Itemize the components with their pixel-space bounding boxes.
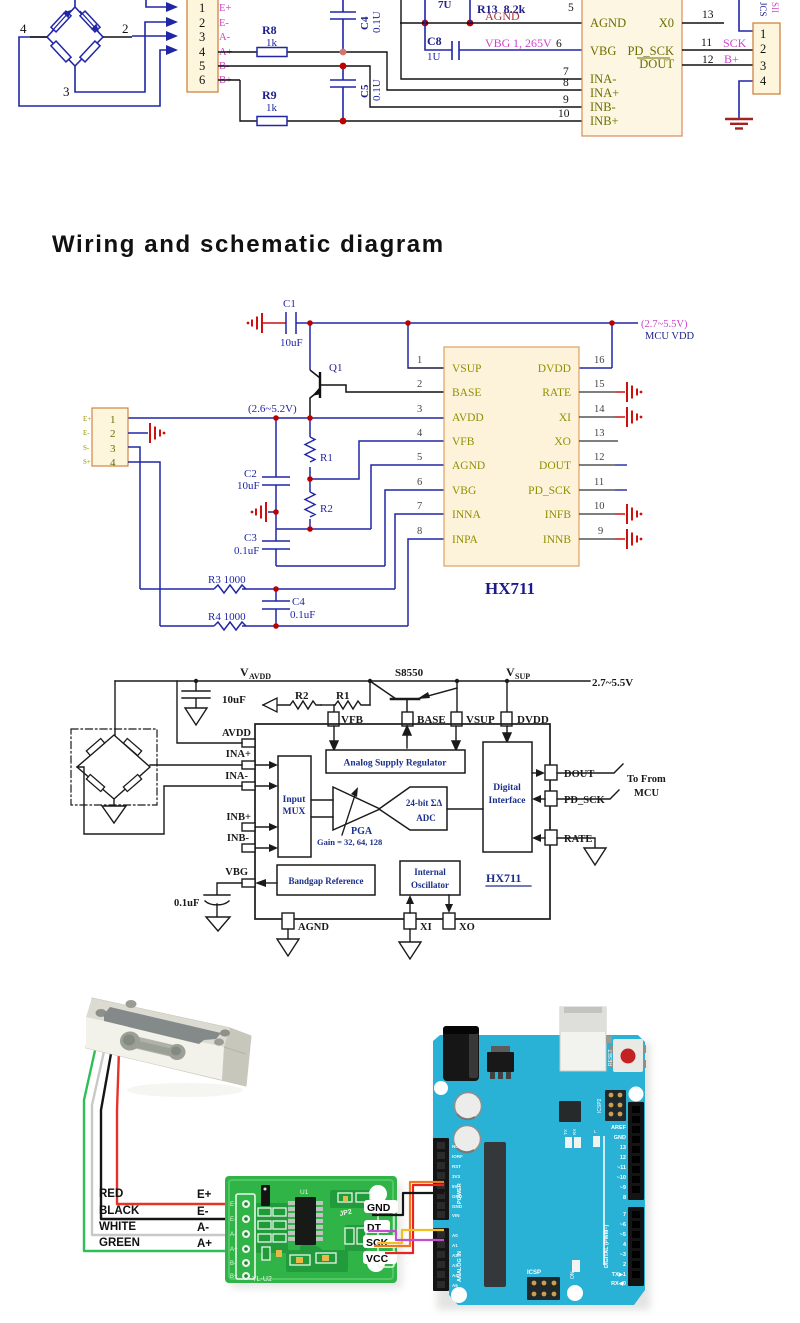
svg-text:Wiring and schematic diagram: Wiring and schematic diagram	[52, 231, 445, 258]
svg-text:Oscillator: Oscillator	[411, 880, 449, 890]
svg-text:1, 265V: 1, 265V	[513, 36, 552, 50]
svg-text:8: 8	[417, 526, 422, 537]
svg-text:INB+: INB+	[226, 812, 251, 823]
svg-text:0.1U: 0.1U	[371, 79, 383, 101]
svg-text:TX: TX	[563, 1129, 568, 1135]
svg-text:E+: E+	[197, 1189, 212, 1201]
svg-text:R8: R8	[262, 23, 277, 37]
svg-text:9: 9	[563, 94, 569, 106]
svg-text:11: 11	[701, 37, 712, 49]
svg-text:R4 1000: R4 1000	[208, 611, 246, 623]
svg-text:2: 2	[760, 42, 766, 56]
svg-text:Bandgap Reference: Bandgap Reference	[288, 876, 363, 886]
svg-text:RX: RX	[572, 1129, 577, 1135]
svg-text:INA+: INA+	[226, 749, 251, 760]
svg-text:SUP: SUP	[515, 672, 530, 681]
svg-text:E+: E+	[83, 415, 91, 423]
svg-text:R9: R9	[262, 88, 277, 102]
svg-text:4: 4	[417, 428, 423, 439]
svg-text:~3: ~3	[620, 1252, 626, 1258]
svg-text:AVDD: AVDD	[249, 672, 271, 681]
svg-text:B+: B+	[724, 52, 739, 66]
svg-text:7: 7	[623, 1212, 626, 1218]
svg-text:VSUP: VSUP	[452, 363, 481, 375]
svg-text:~5: ~5	[620, 1232, 626, 1238]
svg-text:E+: E+	[230, 1202, 238, 1208]
svg-text:R1: R1	[320, 452, 333, 464]
svg-text:S-: S-	[83, 444, 90, 452]
svg-text:RX◀0: RX◀0	[611, 1280, 626, 1287]
svg-text:PD_SCK: PD_SCK	[564, 795, 606, 806]
svg-text:IORF: IORF	[452, 1154, 463, 1159]
svg-text:RST: RST	[452, 1164, 461, 1169]
svg-text:E-: E-	[219, 18, 229, 29]
svg-text:ANALOG IN: ANALOG IN	[457, 1251, 463, 1282]
svg-text:INA-: INA-	[225, 771, 248, 782]
svg-text:INNB: INNB	[543, 534, 571, 546]
svg-text:4: 4	[760, 74, 767, 88]
svg-text:A-: A-	[219, 32, 231, 43]
svg-text:A+: A+	[230, 1247, 238, 1253]
svg-text:AREF: AREF	[611, 1125, 627, 1131]
svg-text:E-: E-	[83, 429, 90, 437]
svg-text:GREEN: GREEN	[99, 1237, 140, 1249]
svg-text:1: 1	[417, 355, 422, 366]
svg-text:Gain = 32, 64, 128: Gain = 32, 64, 128	[317, 837, 382, 847]
svg-text:C5: C5	[359, 84, 371, 98]
svg-text:BLACK: BLACK	[99, 1205, 140, 1217]
svg-text:R2: R2	[295, 690, 309, 702]
svg-text:RATE: RATE	[564, 834, 592, 845]
svg-text:INB-: INB-	[590, 100, 616, 114]
svg-text:B-: B-	[230, 1261, 236, 1267]
svg-text:~10: ~10	[617, 1175, 626, 1181]
svg-text:Digital: Digital	[493, 783, 521, 793]
svg-text:4: 4	[110, 457, 116, 469]
svg-text:C1: C1	[283, 298, 296, 310]
svg-text:7: 7	[417, 501, 422, 512]
svg-text:1k: 1k	[266, 37, 278, 49]
svg-text:B+: B+	[230, 1274, 238, 1280]
svg-text:10: 10	[594, 501, 605, 512]
svg-text:C3: C3	[244, 532, 257, 544]
svg-text:INFB: INFB	[545, 509, 572, 521]
svg-text:XI: XI	[559, 412, 571, 424]
svg-text:4: 4	[20, 21, 27, 36]
svg-text:TX▶1: TX▶1	[612, 1271, 626, 1278]
svg-text:0.1uF: 0.1uF	[290, 609, 315, 621]
svg-text:3: 3	[417, 404, 422, 415]
svg-text:AGND: AGND	[485, 9, 520, 23]
svg-text:0.1U: 0.1U	[371, 11, 383, 33]
svg-text:MCU VDD: MCU VDD	[645, 331, 695, 342]
svg-text:PGA: PGA	[351, 826, 373, 837]
svg-text:MCU: MCU	[634, 788, 659, 799]
svg-text:VBG: VBG	[225, 867, 248, 878]
svg-text:Interface: Interface	[489, 796, 526, 806]
svg-text:GND: GND	[367, 1202, 391, 1214]
svg-text:DOUT: DOUT	[539, 460, 571, 472]
svg-text:5: 5	[568, 2, 574, 14]
svg-text:12: 12	[620, 1155, 626, 1161]
svg-text:VIN: VIN	[452, 1213, 460, 1218]
svg-text:2: 2	[110, 428, 116, 440]
svg-text:ICSP: ICSP	[527, 1270, 541, 1276]
svg-text:YL-U2: YL-U2	[252, 1276, 272, 1283]
svg-text:PD_SCK: PD_SCK	[528, 485, 572, 497]
svg-text:C2: C2	[244, 468, 257, 480]
svg-text:3: 3	[199, 30, 205, 44]
svg-text:To From: To From	[627, 774, 666, 785]
svg-text:PD_SCK: PD_SCK	[627, 44, 674, 58]
svg-text:(2.6~5.2V): (2.6~5.2V)	[248, 403, 297, 415]
svg-text:2.7~5.5V: 2.7~5.5V	[592, 677, 633, 689]
svg-text:3V3: 3V3	[452, 1174, 461, 1179]
svg-text:A5: A5	[452, 1283, 458, 1288]
svg-text:WHITE: WHITE	[99, 1221, 136, 1233]
svg-text:INB-: INB-	[227, 833, 250, 844]
svg-text:A0: A0	[452, 1233, 458, 1238]
svg-text:1U: 1U	[427, 51, 441, 63]
svg-text:8: 8	[563, 77, 569, 89]
svg-text:11: 11	[594, 477, 604, 488]
svg-text:0.1uF: 0.1uF	[174, 898, 199, 909]
svg-text:INB+: INB+	[590, 114, 619, 128]
svg-text:3: 3	[110, 443, 116, 455]
svg-text:10uF: 10uF	[280, 337, 303, 349]
svg-text:~6: ~6	[620, 1222, 626, 1228]
svg-text:5: 5	[417, 452, 422, 463]
svg-text:1: 1	[110, 414, 116, 426]
svg-text:10: 10	[558, 108, 570, 120]
svg-text:RED: RED	[99, 1188, 123, 1200]
svg-text:AGND: AGND	[298, 922, 329, 933]
svg-text:A+: A+	[197, 1238, 212, 1250]
svg-text:Internal: Internal	[414, 867, 446, 877]
svg-text:S+: S+	[83, 458, 91, 466]
svg-text:6: 6	[199, 73, 205, 87]
svg-text:2: 2	[122, 21, 129, 36]
svg-text:3: 3	[760, 59, 766, 73]
svg-text:1: 1	[199, 1, 205, 15]
svg-text:AVDD: AVDD	[452, 412, 484, 424]
svg-text:E+: E+	[219, 3, 231, 14]
svg-text:13: 13	[594, 428, 605, 439]
svg-text:DT: DT	[367, 1222, 382, 1234]
svg-text:VBG: VBG	[485, 36, 511, 50]
svg-text:R3 1000: R3 1000	[208, 574, 246, 586]
svg-text:1k: 1k	[266, 102, 278, 114]
svg-text:DOUT: DOUT	[564, 769, 594, 780]
svg-text:AVDD: AVDD	[222, 728, 251, 739]
svg-text:HX711: HX711	[486, 871, 521, 885]
svg-text:ICSP2: ICSP2	[597, 1098, 603, 1113]
svg-text:10uF: 10uF	[222, 694, 246, 706]
svg-text:2: 2	[623, 1262, 626, 1268]
svg-text:VFB: VFB	[452, 436, 475, 448]
svg-text:6: 6	[417, 477, 422, 488]
svg-text:VCC: VCC	[366, 1253, 389, 1265]
svg-text:Input: Input	[283, 795, 307, 805]
svg-text:13: 13	[620, 1145, 626, 1151]
svg-text:15: 15	[594, 379, 605, 390]
svg-text:AGND: AGND	[452, 460, 485, 472]
svg-text:SCK: SCK	[723, 36, 747, 50]
svg-text:2: 2	[417, 379, 422, 390]
svg-text:13: 13	[702, 9, 714, 21]
svg-text:S8550: S8550	[395, 667, 424, 679]
svg-text:X0: X0	[659, 16, 674, 30]
svg-text:~9: ~9	[620, 1185, 626, 1191]
svg-text:Q1: Q1	[329, 362, 342, 374]
svg-text:0.1uF: 0.1uF	[234, 545, 259, 557]
svg-text:XI: XI	[420, 922, 432, 933]
svg-text:V: V	[506, 665, 515, 679]
svg-text:1: 1	[760, 27, 766, 41]
svg-text:XO: XO	[554, 436, 571, 448]
svg-text:14: 14	[594, 404, 605, 415]
svg-text:RATE: RATE	[542, 387, 571, 399]
svg-text:12: 12	[594, 452, 605, 463]
svg-text:INA-: INA-	[590, 72, 616, 86]
svg-text:Analog Supply Regulator: Analog Supply Regulator	[344, 759, 448, 769]
svg-text:DVDD: DVDD	[538, 363, 571, 375]
svg-text:7U: 7U	[438, 0, 452, 11]
svg-text:MUX: MUX	[283, 807, 306, 817]
svg-text:POWER: POWER	[457, 1183, 463, 1204]
svg-text:AGND: AGND	[590, 16, 626, 30]
svg-text:INPA: INPA	[452, 534, 478, 546]
svg-text:E-: E-	[230, 1217, 236, 1223]
svg-text:A-: A-	[230, 1232, 236, 1238]
svg-text:V: V	[240, 665, 249, 679]
svg-text:VBG: VBG	[590, 44, 616, 58]
svg-text:BASE: BASE	[452, 387, 481, 399]
svg-text:8: 8	[623, 1195, 626, 1201]
svg-text:10uF: 10uF	[237, 480, 260, 492]
svg-text:DOUT: DOUT	[639, 57, 674, 71]
svg-text:~11: ~11	[617, 1165, 626, 1171]
svg-text:NC: NC	[452, 1144, 459, 1149]
svg-text:5: 5	[199, 59, 205, 73]
svg-text:A1: A1	[452, 1243, 458, 1248]
svg-text:RESET: RESET	[608, 1049, 614, 1066]
svg-text:INNA: INNA	[452, 509, 481, 521]
svg-text:DIGITAL (PWM~): DIGITAL (PWM~)	[604, 1224, 610, 1268]
svg-text:A-: A-	[197, 1222, 209, 1234]
svg-text:R1: R1	[336, 690, 349, 702]
svg-text:24-bit ΣΔ: 24-bit ΣΔ	[406, 798, 443, 808]
svg-text:6: 6	[556, 38, 562, 50]
svg-text:9: 9	[598, 526, 603, 537]
svg-text:(2.7~5.5V): (2.7~5.5V)	[641, 319, 688, 330]
svg-text:E-: E-	[197, 1206, 209, 1218]
svg-text:JCS: JCS	[758, 2, 768, 17]
svg-text:3: 3	[63, 84, 70, 99]
svg-text:12: 12	[702, 54, 714, 66]
svg-text:GND: GND	[614, 1135, 626, 1141]
svg-text:INA+: INA+	[590, 86, 619, 100]
svg-text:2: 2	[199, 16, 205, 30]
svg-text:XO: XO	[459, 922, 475, 933]
svg-text:C4: C4	[292, 596, 305, 608]
svg-text:SII: SII	[770, 2, 780, 13]
svg-text:4: 4	[199, 45, 206, 59]
svg-text:VBG: VBG	[452, 485, 476, 497]
svg-text:ADC: ADC	[416, 813, 436, 823]
svg-text:16: 16	[594, 355, 605, 366]
svg-text:C4: C4	[359, 16, 371, 30]
svg-text:U1: U1	[300, 1189, 309, 1196]
svg-text:C8: C8	[427, 34, 442, 48]
svg-text:R2: R2	[320, 503, 333, 515]
svg-text:ON: ON	[570, 1271, 576, 1279]
svg-text:HX711: HX711	[485, 579, 535, 598]
